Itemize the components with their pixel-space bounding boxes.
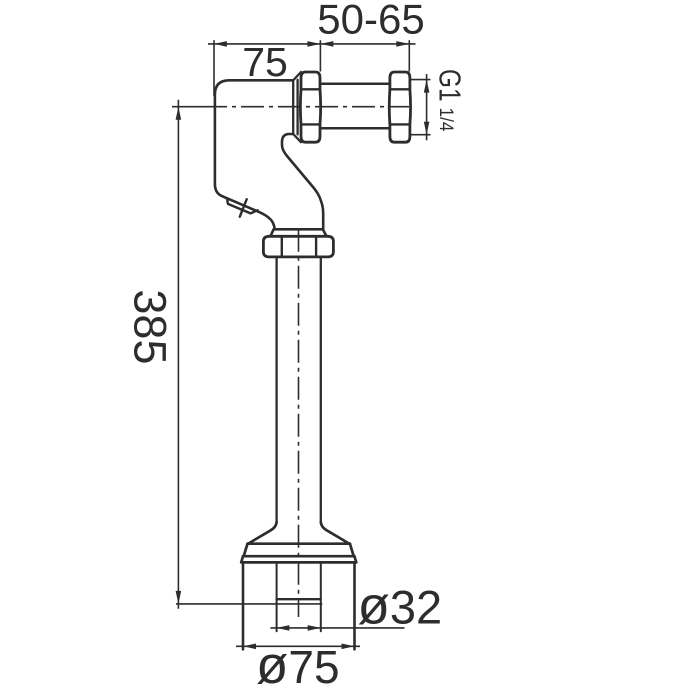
dimension diameter 75 [236, 644, 360, 650]
skirt section [243, 544, 354, 557]
svg-text:ø75: ø75 [256, 636, 340, 695]
big hex nut N3 [263, 236, 333, 257]
horizontal pipe between nuts [320, 84, 390, 128]
svg-text:ø32: ø32 [358, 577, 443, 636]
collar above big nut [271, 229, 327, 236]
dimension diameter 32 [270, 625, 404, 631]
hex nut N2 (right wall nut) [389, 72, 410, 142]
dimension 50-65 [320, 40, 415, 71]
bell flare [248, 522, 350, 544]
base lip line [241, 556, 356, 562]
dimension 385 [176, 100, 323, 609]
hex nut N1 (left union nut) [300, 72, 320, 142]
svg-text:G1: G1 [433, 69, 468, 102]
svg-text:1/4: 1/4 [435, 108, 457, 132]
break slash on side tap [240, 199, 247, 217]
dimension 75 [208, 40, 320, 96]
side tap stub [227, 199, 257, 214]
svg-text:75: 75 [242, 39, 288, 85]
elbow body outer contour [215, 80, 293, 229]
dimension G1 1/4 [410, 74, 431, 140]
inner pipe walls inside base [277, 562, 321, 631]
drop pipe walls [277, 257, 321, 523]
elbow end cap lines [293, 80, 297, 135]
svg-text:385: 385 [125, 289, 176, 364]
elbow body inner contour (S-curve) [282, 134, 323, 229]
chamfer diagonals at nut N1 [293, 72, 301, 142]
svg-text:50-65: 50-65 [317, 0, 424, 42]
centerline horizontal (top pipe axis) [172, 106, 409, 108]
centerline vertical (drop pipe axis) [298, 229, 300, 617]
pipe outlet bottom edge [277, 598, 321, 600]
base cylinder walls [243, 562, 355, 649]
